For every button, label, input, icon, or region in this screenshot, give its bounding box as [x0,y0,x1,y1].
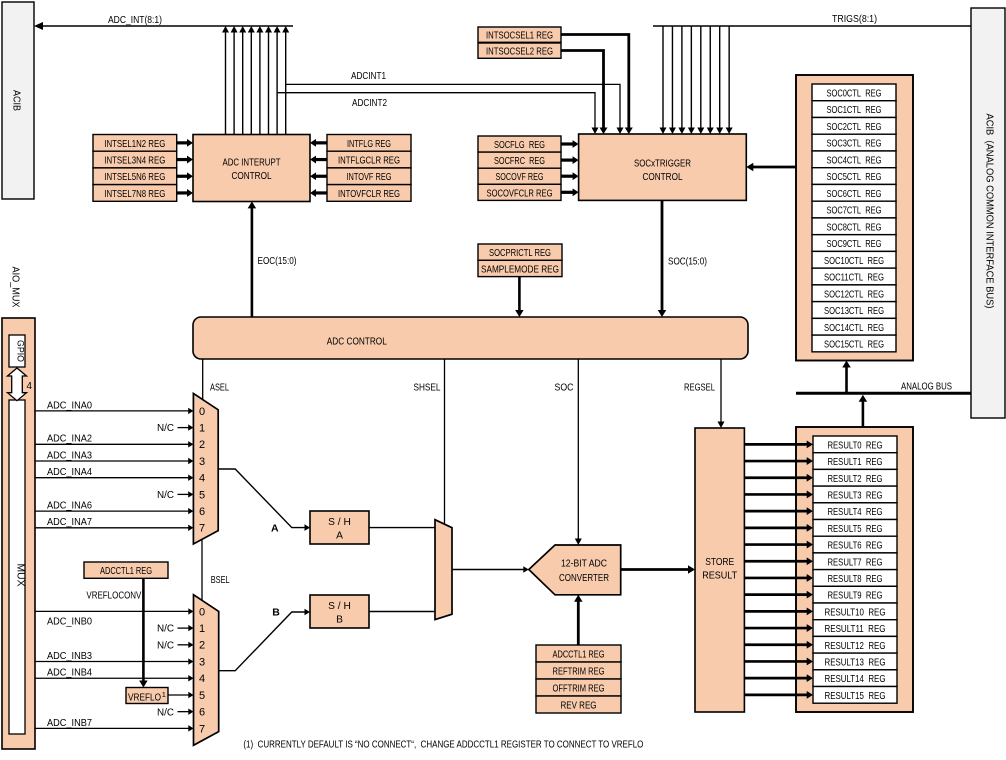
svg-text:RESULT14 REG: RESULT14 REG [825,674,886,685]
svg-text:INTOVFCLR REG: INTOVFCLR REG [338,189,400,200]
SOC wire [577,359,579,540]
svg-text:ADC_INA0: ADC_INA0 [47,400,92,411]
svg-text:B: B [272,607,280,619]
svg-text:SOCFLG REG: SOCFLG REG [494,140,545,151]
converter output wire [621,568,689,571]
svg-text:5: 5 [199,489,205,501]
svg-text:A: A [336,531,343,542]
svg-text:INTFLGCLR REG: INTFLGCLR REG [338,156,400,167]
svg-text:INTSOCSEL2 REG: INTSOCSEL2 REG [486,47,553,58]
svg-text:ADC CONTROL: ADC CONTROL [327,337,387,348]
svg-text:RESULT1 REG: RESULT1 REG [828,457,883,468]
svg-text:SOC10CTL REG: SOC10CTL REG [824,256,884,267]
svg-text:VREFLOCONV: VREFLOCONV [86,591,141,602]
svg-text:SOC1CTL REG: SOC1CTL REG [827,105,882,116]
ASEL wire [202,359,204,400]
result to bus arrow [862,401,865,427]
svg-text:RESULT5 REG: RESULT5 REG [828,524,883,535]
svg-text:N/C: N/C [157,624,174,635]
EOC wire [251,207,254,318]
RESULT container [796,427,913,712]
store to result arrows [744,443,807,446]
svg-text:4: 4 [199,673,205,685]
svg-text:RESULT13 REG: RESULT13 REG [825,658,886,669]
INTFLG arrows [315,141,327,144]
svg-text:SHSEL: SHSEL [414,383,441,394]
svg-text:1: 1 [162,690,166,699]
RESULT register table [813,436,897,453]
svg-text:STORE: STORE [705,557,734,568]
svg-text:4: 4 [199,473,205,485]
svg-text:RESULT8 REG: RESULT8 REG [828,574,883,585]
sample mux [435,520,452,620]
svg-text:ADC_INA7: ADC_INA7 [47,517,92,528]
svg-text:SOC13CTL REG: SOC13CTL REG [824,306,884,317]
trim register stack [536,645,621,662]
ADC control bar [193,317,748,359]
svg-text:12-BIT ADC: 12-BIT ADC [561,559,607,570]
TRIGS arrows [662,26,664,129]
svg-text:INTFLG REG: INTFLG REG [347,139,391,150]
ACIB bus box right [971,8,1005,418]
svg-text:SOC8CTL REG: SOC8CTL REG [827,222,882,233]
svg-text:4: 4 [27,381,33,392]
svg-text:INTSEL7N8 REG: INTSEL7N8 REG [104,189,165,200]
svg-text:ACIB (ANALOG COMMON INTERFACE: ACIB (ANALOG COMMON INTERFACE BUS) [984,114,995,309]
mux A output wire [218,469,305,528]
INTSEL arrows [177,141,188,144]
svg-text:SOC3CTL REG: SOC3CTL REG [827,139,882,150]
svg-text:REFTRIM REG: REFTRIM REG [553,667,605,678]
ADC_INT arrows [225,32,227,135]
svg-text:N/C: N/C [157,490,174,501]
svg-text:INTOVF REG: INTOVF REG [347,172,392,183]
svg-text:SOCOVF REG: SOCOVF REG [496,172,544,183]
svg-text:1: 1 [199,623,205,635]
svg-text:2: 2 [199,439,205,451]
mux A [193,393,218,544]
svg-text:RESULT12 REG: RESULT12 REG [825,641,886,652]
svg-text:ADC_INB3: ADC_INB3 [47,651,92,662]
svg-text:ADC_INA3: ADC_INA3 [47,450,92,461]
trim wire [577,601,580,645]
svg-text:VREFLO: VREFLO [128,693,161,704]
svg-text:SOC7CTL REG: SOC7CTL REG [827,206,882,217]
SOC15 wire [661,200,664,311]
SOCFLG arrows [561,142,574,145]
SHSEL wire [444,359,446,525]
svg-text:A: A [271,522,279,534]
svg-text:SOC(15:0): SOC(15:0) [668,257,707,268]
ACIB bus box left [2,2,34,199]
svg-text:ADC_INB4: ADC_INB4 [47,668,92,679]
svg-text:RESULT2 REG: RESULT2 REG [828,474,883,485]
VREFLOCONV wire [142,578,145,681]
svg-text:AIO_MUX: AIO_MUX [10,267,21,308]
svg-text:7: 7 [199,723,205,735]
svg-text:0: 0 [199,406,205,418]
VREFLO wire [168,694,189,696]
TRIGS bus wire [653,25,971,27]
svg-text:SOC4CTL REG: SOC4CTL REG [827,155,882,166]
svg-text:S / H: S / H [328,517,351,528]
svg-text:7: 7 [199,523,205,535]
store result box [695,428,744,712]
INTSOCSEL2 wire [561,51,604,129]
svg-text:CONTROL: CONTROL [643,172,683,183]
svg-text:0: 0 [199,606,205,618]
svg-text:RESULT4 REG: RESULT4 REG [828,507,883,518]
svg-text:INTSEL5N6 REG: INTSEL5N6 REG [104,172,165,183]
mux B output wire [219,612,306,671]
svg-text:RESULT11 REG: RESULT11 REG [825,624,886,635]
SOCxTRIGGER control box [579,134,747,200]
svg-text:6: 6 [199,506,205,518]
svg-text:SOC15CTL REG: SOC15CTL REG [824,340,884,351]
svg-text:SOC14CTL REG: SOC14CTL REG [824,323,884,334]
svg-text:SAMPLEMODE REG: SAMPLEMODE REG [481,265,559,276]
SOCCTL to SOCxTRIGGER wire [752,166,796,169]
bus to SOCCTL arrow [845,367,848,394]
svg-text:INTSEL3N4 REG: INTSEL3N4 REG [104,156,165,167]
INTSOCSEL1 REG box [478,27,561,42]
sample hold A box [310,511,369,544]
MUX inner box [9,400,25,734]
svg-text:SOC12CTL REG: SOC12CTL REG [824,289,884,300]
svg-text:CONVERTER: CONVERTER [559,573,609,584]
svg-text:ADCINT2: ADCINT2 [352,98,387,109]
svg-text:INTSOCSEL1 REG: INTSOCSEL1 REG [486,31,553,42]
svg-text:INTSEL1N2 REG: INTSEL1N2 REG [104,139,165,150]
INTSOCSEL1 wire [561,35,629,129]
svg-text:ADC_INB7: ADC_INB7 [47,718,92,729]
ADC interrupt control box [193,135,310,202]
svg-text:RESULT9 REG: RESULT9 REG [828,591,883,602]
svg-text:ADC_INT(8:1): ADC_INT(8:1) [108,15,162,26]
analog bus wire [796,392,971,395]
svg-text:N/C: N/C [157,640,174,651]
svg-text:BSEL: BSEL [211,575,230,586]
svg-text:5: 5 [199,690,205,702]
VREFLO box [126,688,168,704]
SOCCTL register table [812,84,896,101]
svg-text:RESULT15 REG: RESULT15 REG [825,691,886,702]
svg-text:2: 2 [199,640,205,652]
ADCCTL1 REG box left [84,562,168,578]
svg-text:SOC2CTL REG: SOC2CTL REG [827,122,882,133]
REGSEL wire [720,359,722,423]
svg-text:ACIB: ACIB [11,90,22,111]
svg-text:RESULT0 REG: RESULT0 REG [828,440,883,451]
SOCCTL container [796,75,913,361]
svg-text:ADCCTL1 REG: ADCCTL1 REG [553,650,605,661]
svg-text:ADC_INA4: ADC_INA4 [47,467,92,478]
svg-text:SOCxTRIGGER: SOCxTRIGGER [634,159,691,170]
svg-text:ADC_INA6: ADC_INA6 [47,501,92,512]
sample mux output wire [452,569,524,571]
svg-text:SOC6CTL REG: SOC6CTL REG [827,189,882,200]
svg-text:ADC INTERUPT: ADC INTERUPT [223,158,281,169]
ADCINT2 wire [277,93,595,129]
INTSEL register stack [93,135,177,152]
svg-text:RESULT6 REG: RESULT6 REG [828,541,883,552]
INTFLG register stack [327,135,411,152]
svg-text:MUX: MUX [15,564,26,587]
SAMPLEMODE REG box [478,260,562,276]
svg-text:REGSEL: REGSEL [684,383,715,394]
BSEL wire [201,540,203,601]
svg-text:3: 3 [199,656,205,668]
svg-text:SOC: SOC [555,383,574,394]
svg-text:ASEL: ASEL [210,383,229,394]
svg-text:RESULT10 REG: RESULT10 REG [825,607,886,618]
ADC_INT bus wire [42,25,293,27]
svg-text:SOC11CTL REG: SOC11CTL REG [824,273,884,284]
svg-text:CONTROL: CONTROL [232,171,272,182]
S/H A to mux wire [369,527,435,529]
svg-text:1: 1 [199,423,205,435]
svg-text:TRIGS(8:1): TRIGS(8:1) [832,14,877,25]
svg-text:SOCOVFCLR REG: SOCOVFCLR REG [487,188,553,199]
svg-text:SOCFRC REG: SOCFRC REG [494,156,545,167]
ADC_INA input wires [35,410,189,412]
svg-text:RESULT: RESULT [702,571,737,582]
svg-text:B: B [336,615,343,626]
GPIO box [9,335,25,367]
ADCINT1 wire [286,84,620,128]
svg-text:ANALOG BUS: ANALOG BUS [901,382,952,393]
svg-text:SOC5CTL REG: SOC5CTL REG [827,172,882,183]
svg-text:RESULT7 REG: RESULT7 REG [828,557,883,568]
svg-text:(1) CURRENTLY DEFAULT IS “NO: (1) CURRENTLY DEFAULT IS “NO CONNECT“, C… [243,740,643,751]
svg-text:N/C: N/C [157,707,174,718]
GPIO-MUX double arrow [8,368,27,401]
svg-text:S / H: S / H [328,601,351,612]
svg-text:ADCINT1: ADCINT1 [351,71,386,82]
mux B [194,595,219,746]
svg-text:OFFTRIM REG: OFFTRIM REG [553,684,605,695]
ADC converter [529,545,621,595]
svg-text:SOCPRICTL REG: SOCPRICTL REG [489,248,551,259]
AIO_MUX block [2,318,35,749]
svg-text:REV REG: REV REG [561,701,597,712]
SOCFLG register stack [478,136,561,152]
svg-text:3: 3 [199,456,205,468]
svg-text:ADCCTL1 REG: ADCCTL1 REG [100,566,152,577]
svg-text:6: 6 [199,707,205,719]
svg-text:SOC9CTL REG: SOC9CTL REG [827,239,882,250]
svg-text:GPIO: GPIO [15,340,26,362]
sample hold B box [310,595,369,628]
svg-text:N/C: N/C [157,423,174,434]
SOCPRICTL REG box [478,244,562,260]
INTSOCSEL2 REG box [478,43,561,58]
SOCPRICTL wire [518,277,521,311]
svg-text:SOC0CTL REG: SOC0CTL REG [827,88,882,99]
svg-text:RESULT3 REG: RESULT3 REG [828,491,883,502]
svg-text:ADC_INA2: ADC_INA2 [47,434,92,445]
S/H B to mux wire [369,611,435,613]
svg-text:ADC_INB0: ADC_INB0 [47,617,92,628]
ADC_INB input wires [35,610,189,612]
svg-text:EOC(15:0): EOC(15:0) [258,256,297,267]
